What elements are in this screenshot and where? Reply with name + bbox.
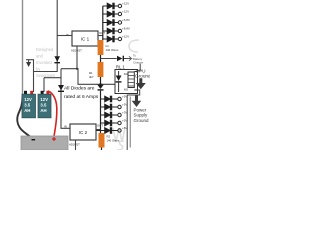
svg-text:4k7: 4k7 (89, 75, 94, 79)
svg-text:All Diodes are: All Diodes are (64, 85, 95, 91)
svg-text:Invented: Invented (36, 60, 52, 65)
svg-text:+5V: +5V (122, 119, 127, 123)
svg-text:3.5: 3.5 (24, 103, 31, 108)
svg-text:IC 2: IC 2 (79, 130, 88, 135)
svg-text:+5V: +5V (122, 95, 127, 99)
svg-text:+12V: +12V (122, 35, 129, 39)
svg-text:Ground: Ground (135, 73, 150, 78)
svg-text:IN: IN (64, 125, 67, 129)
svg-text:and: and (36, 54, 44, 59)
svg-text:+3V: +3V (122, 111, 127, 115)
svg-text:ADJUST: ADJUST (69, 143, 80, 147)
svg-text:+12V: +12V (122, 10, 129, 14)
svg-text:Designed: Designed (36, 47, 54, 52)
svg-text:NC: NC (124, 72, 128, 76)
svg-text:OUT: OUT (99, 31, 105, 35)
svg-text:rated at 6 Amps: rated at 6 Amps (64, 94, 99, 100)
svg-text:+5V: +5V (122, 103, 127, 107)
svg-text:Ground: Ground (134, 118, 150, 123)
svg-text:+5V: +5V (122, 126, 127, 130)
svg-text:+8.8V: +8.8V (122, 27, 130, 31)
svg-text:3.5: 3.5 (40, 103, 47, 108)
svg-text:OUT: OUT (97, 124, 103, 128)
svg-text:12V: 12V (40, 97, 48, 102)
svg-text:12V: 12V (24, 97, 32, 102)
svg-text:140 Ohms: 140 Ohms (107, 139, 121, 143)
svg-text:IC 1: IC 1 (81, 37, 90, 42)
svg-text:140 Ohms: 140 Ohms (106, 48, 120, 52)
svg-text:Charger: Charger (133, 61, 143, 65)
svg-text:RL 1: RL 1 (116, 65, 125, 70)
svg-text:AH: AH (24, 108, 30, 113)
svg-text:+12V: +12V (122, 2, 129, 6)
svg-text:AH: AH (40, 108, 46, 113)
svg-text:+5.8V: +5.8V (122, 18, 130, 22)
